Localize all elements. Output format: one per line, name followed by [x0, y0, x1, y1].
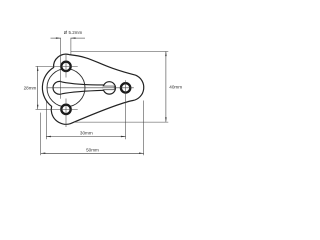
dim 28mm arrow down: [37, 105, 39, 110]
dim 40mm bottom extension: [74, 121, 169, 123]
plate outline: [42, 54, 143, 124]
centerline main horizontal: [47, 87, 134, 89]
dim 50mm arrow left: [41, 153, 46, 155]
slot channel through ball: [103, 86, 115, 89]
centerline bottom hole horizontal: [36, 108, 78, 110]
grommet ring right hole: [121, 83, 130, 92]
svg-text:40mm: 40mm: [169, 85, 182, 90]
grommet ring top-left hole: [61, 62, 70, 71]
dim 30mm arrow right: [121, 136, 126, 138]
dim dia5.2 line left segment: [51, 37, 61, 39]
dim 30mm arrow left: [46, 136, 51, 138]
svg-text:Ø 5.2mm: Ø 5.2mm: [64, 30, 83, 35]
boss circle: [47, 69, 85, 107]
centerline bottom hole vertical: [65, 99, 67, 128]
dim 30mm left extension: [45, 101, 47, 139]
svg-text:30mm: 30mm: [80, 131, 93, 136]
slot bar bottom line: [104, 89, 115, 91]
dim 40mm arrow down: [165, 117, 167, 122]
slot bar end line: [113, 86, 115, 90]
dim 50mm right extension: [143, 101, 145, 156]
centerline bulb vertical / dia 5.2 left extension: [60, 38, 62, 99]
dim dia5.2 arrow left: [56, 37, 61, 39]
taper top line: [62, 82, 104, 85]
grommet ring bottom-left hole: [61, 105, 70, 114]
centerline top hole vertical: [65, 55, 67, 78]
dim 28mm line: [37, 66, 39, 109]
centerline top hole horizontal: [36, 65, 78, 67]
svg-text:28mm: 28mm: [24, 85, 37, 90]
dim 40mm line: [165, 52, 167, 122]
dim 50mm line: [41, 152, 144, 154]
dim 50mm arrow right: [139, 153, 144, 155]
ball end circle: [103, 82, 115, 94]
dim 50mm left extension: [40, 113, 42, 156]
dia 5.2 right extension: [70, 38, 72, 55]
dim dia5.2 arrow right: [71, 37, 76, 39]
bulb of lever slot: [53, 81, 62, 94]
dim 30mm line: [46, 136, 125, 138]
centerline right hole vertical / 30mm right extension: [125, 80, 127, 139]
svg-text:50mm: 50mm: [86, 148, 99, 153]
taper bottom line: [62, 90, 104, 94]
dim 40mm arrow up: [165, 52, 167, 57]
dim 40mm top extension: [71, 51, 168, 53]
slot bar top line: [104, 85, 115, 87]
dim dia5.2 line right segment: [71, 37, 85, 39]
dim 28mm arrow up: [37, 66, 39, 71]
